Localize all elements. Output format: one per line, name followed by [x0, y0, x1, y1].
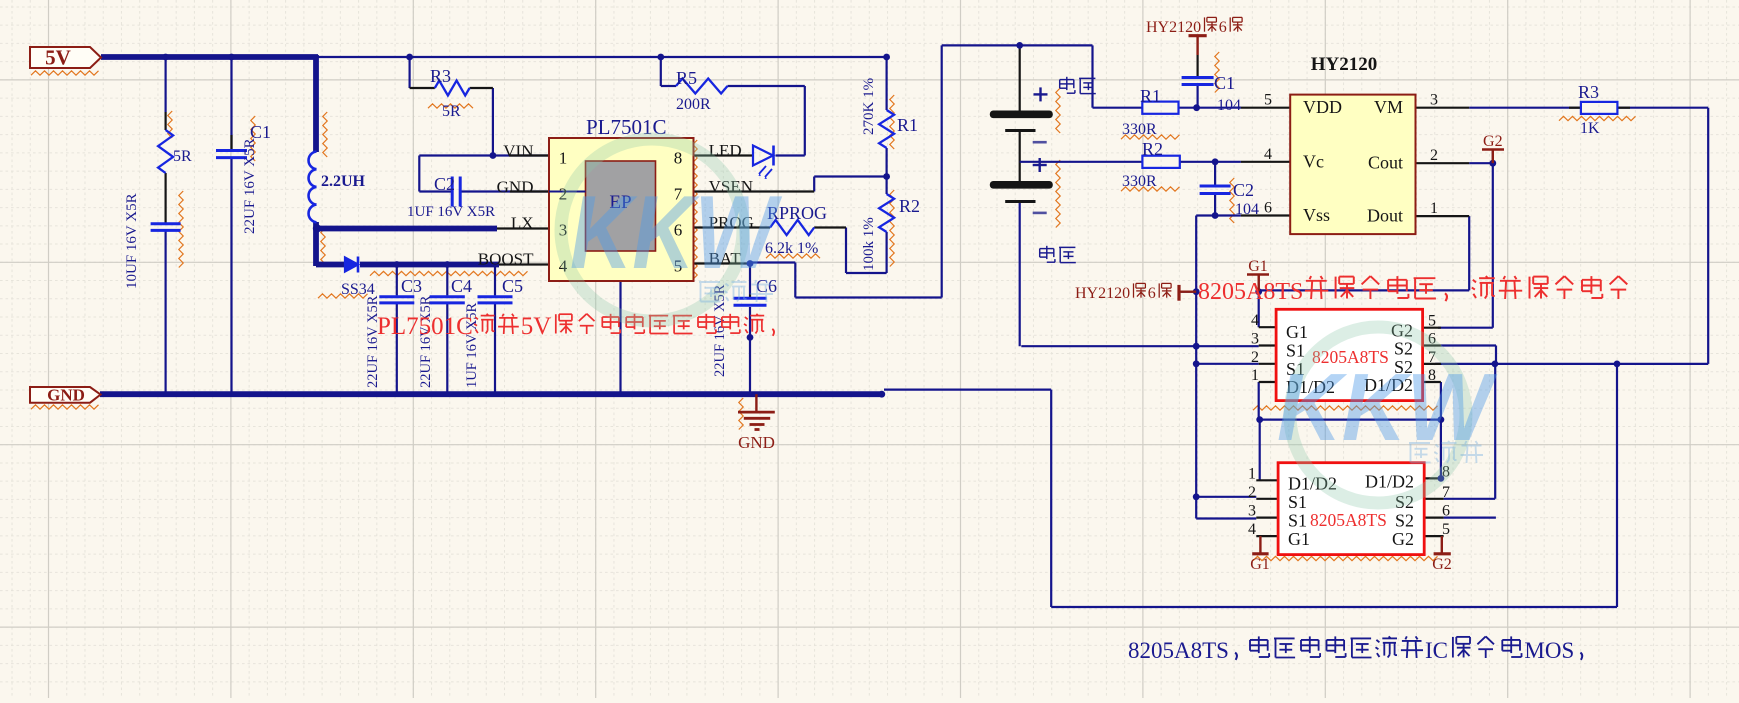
svg-text:330R: 330R [1122, 173, 1157, 190]
svg-text:6: 6 [1219, 19, 1227, 36]
svg-text:5: 5 [1264, 92, 1272, 109]
svg-text:1: 1 [1430, 200, 1438, 217]
svg-text:2.2UH: 2.2UH [321, 173, 366, 190]
svg-text:5V: 5V [521, 313, 552, 340]
svg-text:8205A8TS: 8205A8TS [1198, 279, 1303, 305]
svg-text:22UF 16V X5R: 22UF 16V X5R [365, 295, 381, 388]
svg-text:8: 8 [674, 149, 683, 168]
svg-text:2: 2 [1430, 147, 1438, 164]
svg-text:100k 1%: 100k 1% [861, 217, 877, 271]
svg-text:330R: 330R [1122, 121, 1157, 138]
svg-text:1UF 16V X5R: 1UF 16V X5R [407, 204, 495, 220]
svg-text:HY2120: HY2120 [1075, 285, 1130, 302]
svg-text:3: 3 [1251, 331, 1259, 348]
svg-text:R3: R3 [1578, 82, 1599, 102]
svg-text:C2: C2 [1233, 180, 1254, 200]
svg-text:HY2120: HY2120 [1146, 19, 1201, 36]
svg-text:Cout: Cout [1368, 153, 1403, 173]
svg-text:Vc: Vc [1303, 151, 1324, 171]
svg-text:6: 6 [1148, 285, 1156, 302]
svg-text:270K 1%: 270K 1% [861, 78, 877, 135]
svg-text:8205A8TS: 8205A8TS [1128, 638, 1229, 663]
svg-text:VIN: VIN [503, 142, 533, 161]
svg-text:3: 3 [1430, 92, 1438, 109]
svg-text:R2: R2 [899, 196, 920, 216]
svg-text:S2: S2 [1395, 511, 1414, 531]
svg-text:200R: 200R [676, 96, 711, 113]
svg-text:22UF 16V X5R: 22UF 16V X5R [418, 295, 434, 388]
svg-text:G1: G1 [1250, 556, 1270, 573]
svg-text:GND: GND [47, 386, 85, 405]
svg-text:2: 2 [1248, 484, 1256, 501]
svg-text:C5: C5 [502, 276, 523, 296]
svg-text:PL7501C: PL7501C [377, 313, 473, 340]
svg-text:G1: G1 [1288, 529, 1310, 549]
svg-text:R5: R5 [676, 68, 697, 88]
svg-text:VDD: VDD [1303, 97, 1342, 117]
svg-text:6: 6 [1264, 200, 1272, 217]
svg-text:1: 1 [1251, 367, 1259, 384]
svg-text:104: 104 [1217, 97, 1241, 114]
svg-text:C2: C2 [434, 174, 455, 194]
svg-text:Dout: Dout [1367, 206, 1403, 226]
svg-text:MOS: MOS [1524, 638, 1574, 663]
svg-text:KKW: KKW [570, 175, 782, 291]
svg-text:4: 4 [1264, 146, 1272, 163]
svg-text:G1: G1 [1286, 322, 1308, 342]
svg-text:C4: C4 [451, 276, 472, 296]
svg-text:R1: R1 [897, 115, 918, 135]
svg-text:C1: C1 [1214, 73, 1235, 93]
svg-text:Vss: Vss [1303, 205, 1330, 225]
svg-text:G2: G2 [1392, 529, 1414, 549]
svg-text:SS34: SS34 [341, 281, 375, 298]
svg-text:G2: G2 [1483, 133, 1503, 150]
svg-text:104: 104 [1235, 201, 1259, 218]
svg-text:G2: G2 [1432, 556, 1452, 573]
svg-text:22UF 16V X5R: 22UF 16V X5R [242, 138, 258, 234]
svg-text:G1: G1 [1248, 258, 1268, 275]
svg-text:R3: R3 [430, 66, 451, 86]
svg-text:1: 1 [1248, 465, 1256, 482]
svg-text:4: 4 [1251, 312, 1259, 329]
svg-text:VM: VM [1374, 97, 1403, 117]
svg-text:S1: S1 [1288, 511, 1307, 531]
svg-text:10UF 16V X5R: 10UF 16V X5R [124, 193, 140, 289]
svg-text:LX: LX [511, 214, 534, 233]
svg-text:R2: R2 [1142, 139, 1163, 159]
svg-text:1: 1 [559, 149, 568, 168]
svg-text:3: 3 [1248, 503, 1256, 520]
svg-text:7: 7 [1442, 484, 1450, 501]
svg-text:6: 6 [1442, 503, 1450, 520]
svg-text:8205A8TS: 8205A8TS [1310, 510, 1387, 530]
svg-text:5: 5 [1428, 313, 1436, 330]
svg-text:GND: GND [497, 178, 534, 197]
svg-text:BOOST: BOOST [478, 250, 534, 269]
svg-text:5R: 5R [442, 103, 461, 120]
svg-text:5V: 5V [45, 46, 71, 70]
svg-text:D1/D2: D1/D2 [1365, 471, 1414, 491]
svg-text:5R: 5R [173, 148, 192, 165]
svg-text:5: 5 [1442, 521, 1450, 538]
svg-text:C3: C3 [401, 276, 422, 296]
svg-text:GND: GND [738, 433, 775, 452]
svg-text:1K: 1K [1580, 120, 1600, 137]
svg-text:2: 2 [1251, 349, 1259, 366]
svg-text:4: 4 [1248, 521, 1256, 538]
svg-text:RPROG: RPROG [767, 203, 827, 223]
svg-text:HY2120: HY2120 [1311, 54, 1378, 75]
svg-text:S1: S1 [1288, 492, 1307, 512]
svg-text:R1: R1 [1140, 86, 1161, 106]
svg-text:IC: IC [1425, 638, 1448, 663]
